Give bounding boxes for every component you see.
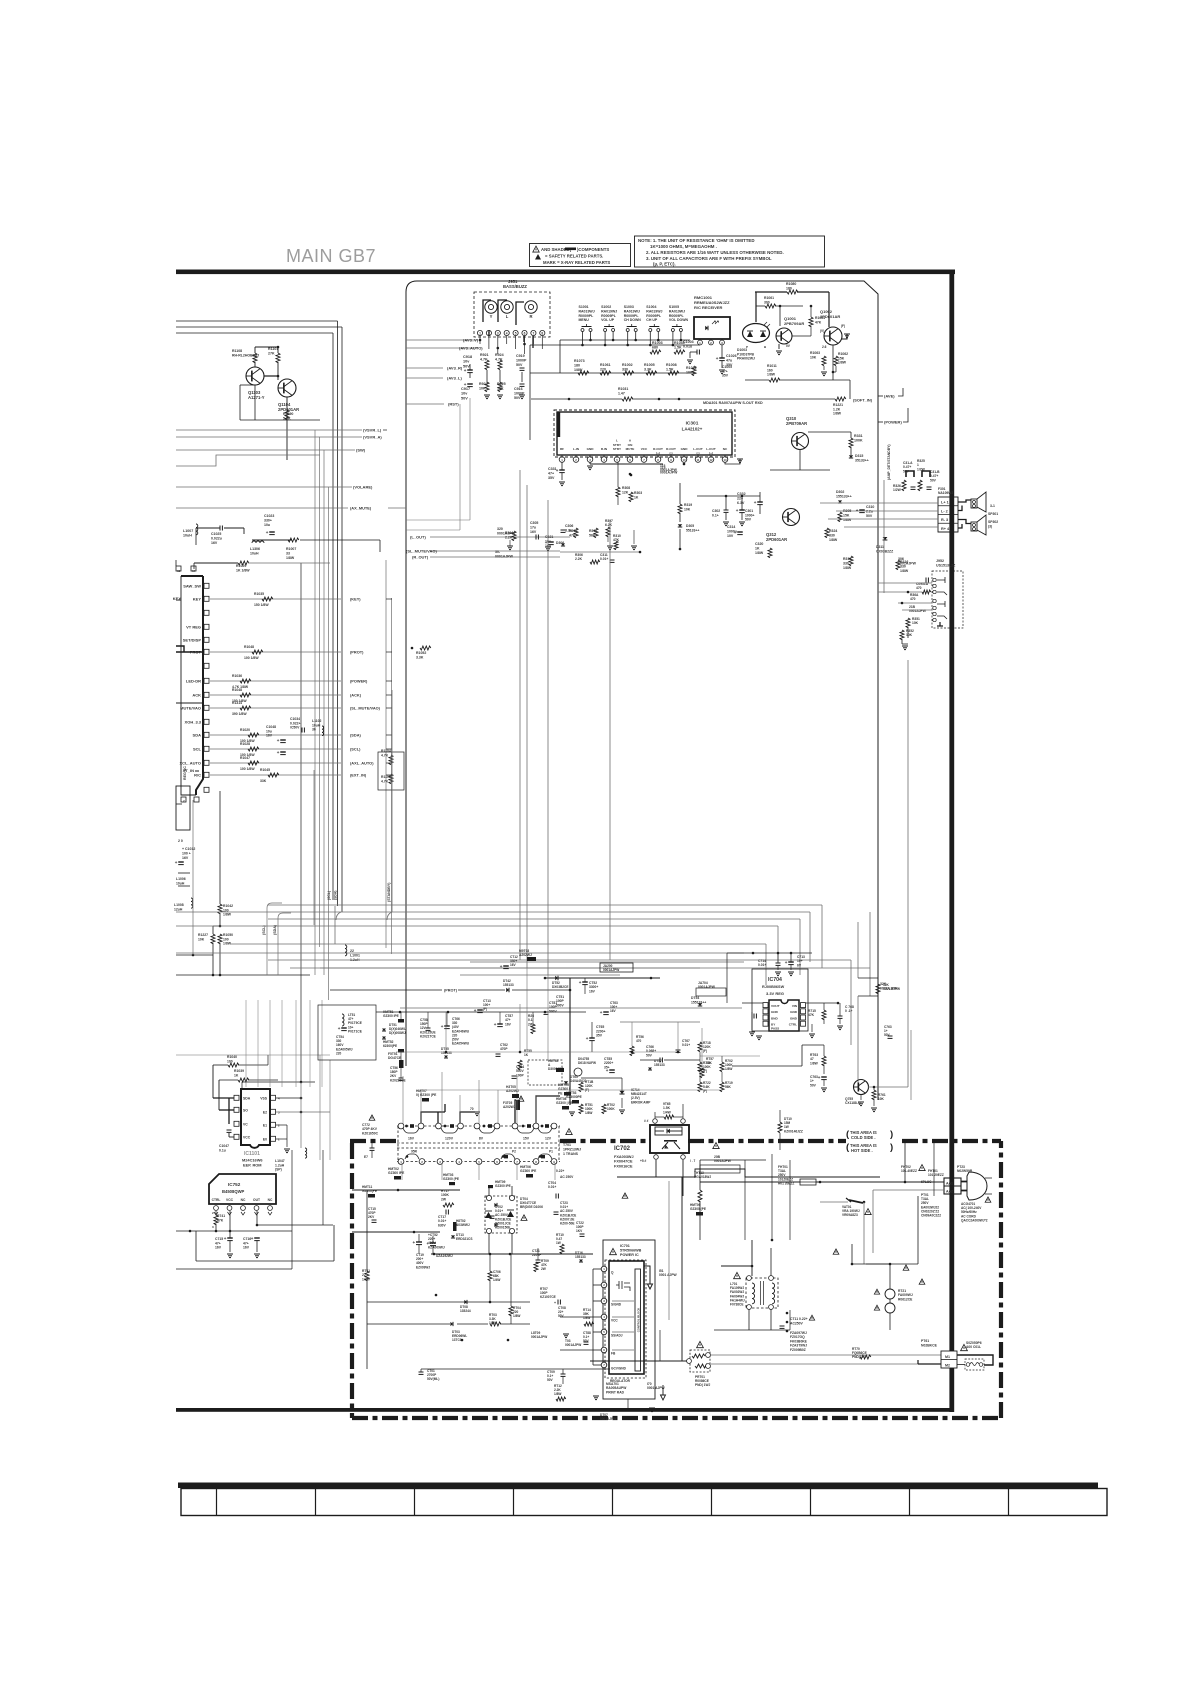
svg-text:+: + — [579, 980, 582, 985]
resistor RT21 fusible — [885, 1289, 895, 1299]
resistor R1048 on (ACK) — [240, 693, 251, 697]
svg-text:RA019WJ: RA019WJ — [579, 309, 595, 313]
svg-text:16V: 16V — [211, 541, 218, 545]
wire AX_MUTE — [176, 507, 348, 509]
svg-text:0 .1+: 0 .1+ — [845, 1009, 852, 1013]
svg-text:47+: 47+ — [548, 472, 554, 476]
svg-text:100 +: 100 + — [182, 851, 191, 855]
svg-text:NOTE: 1. THE UNIT OF RESISTANC: NOTE: 1. THE UNIT OF RESISTANCE ’OHM’ IS… — [638, 238, 755, 243]
IC702 internal LED — [655, 1127, 682, 1135]
svg-text:IC1101: IC1101 — [244, 1151, 260, 1157]
svg-text:0.1u: 0.1u — [219, 1148, 226, 1152]
wire hot mid rails — [537, 1248, 539, 1260]
capacitor C306 3.3u — [561, 529, 566, 531]
footer table divider 2 — [315, 1488, 317, 1516]
svg-text:P1: P1 — [549, 1150, 553, 1154]
op-amp IC301 LA42102 body — [557, 412, 732, 455]
svg-text:CONTROL BLOCK: CONTROL BLOCK — [637, 1308, 641, 1333]
svg-text:35V: 35V — [596, 1034, 603, 1038]
svg-text:95R: 95R — [411, 1150, 418, 1154]
ground IC752 caps — [229, 1241, 231, 1252]
wire (ACK) — [210, 694, 341, 696]
connector J952 headphone jack dashed — [932, 571, 963, 628]
svg-text:B4508QWP: B4508QWP — [222, 1189, 245, 1194]
svg-text:16V: 16V — [610, 1009, 617, 1013]
svg-text:6.2K: 6.2K — [605, 523, 613, 527]
svg-text:C916: C916 — [514, 387, 523, 391]
svg-text:50V: 50V — [583, 1339, 590, 1343]
svg-text:EZ009WJ: EZ009WJ — [416, 1265, 430, 1269]
svg-text:FXA003WJ: FXA003WJ — [614, 1155, 634, 1159]
wire strip vertical drops — [400, 1012, 402, 1019]
key bus wire lower — [530, 372, 694, 374]
svg-text:180: 180 — [786, 286, 792, 290]
svg-text:IC702: IC702 — [614, 1146, 631, 1152]
svg-text:R1048: R1048 — [232, 688, 242, 692]
svg-text:R1048: R1048 — [244, 645, 254, 649]
svg-text:(SL_MUTE/VAO): (SL_MUTE/VAO) — [350, 706, 381, 711]
svg-text:+: + — [277, 738, 280, 743]
svg-text:PRA002WJ: PRA002WJ — [737, 357, 755, 361]
svg-text:R921: R921 — [480, 353, 489, 357]
wire hot verticals misc — [771, 1154, 773, 1240]
frame right bar — [949, 270, 954, 1413]
svg-text:16V: 16V — [243, 1246, 250, 1250]
bus corner wires top-left — [176, 320, 338, 322]
svg-text:C314: C314 — [727, 525, 735, 529]
svg-text:EZA054WU: EZA054WU — [452, 1042, 470, 1046]
svg-text:(AX_MUTE): (AX_MUTE) — [350, 506, 372, 511]
wire strip rail 1012 — [376, 1011, 586, 1013]
svg-text:0001 AJPW: 0001 AJPW — [883, 987, 900, 991]
svg-text:+: + — [338, 1026, 341, 1031]
svg-text:50V: 50V — [516, 363, 523, 367]
svg-text:2PD601AR: 2PD601AR — [820, 314, 840, 319]
svg-text:GX03B2ZZ: GX03B2ZZ — [876, 549, 893, 553]
svg-text:SCL: SCL — [193, 747, 202, 752]
wire collector Q1103 — [254, 385, 256, 420]
svg-text:1KV: 1KV — [576, 1229, 583, 1233]
wire T701 lower drops — [401, 1163, 403, 1180]
svg-text:R1047: R1047 — [240, 756, 250, 760]
T701 secondary winding loops — [403, 1128, 419, 1133]
svg-text:R-IN: R-IN — [601, 447, 608, 451]
L701 coil B — [772, 1283, 775, 1304]
svg-text:+: + — [251, 1236, 254, 1241]
wire SW — [176, 449, 355, 451]
rail hot bottom — [421, 1368, 610, 1370]
svg-text:330: 330 — [622, 368, 628, 372]
svg-text:0001AJPW: 0001AJPW — [565, 1343, 581, 1347]
svg-text:6.3V: 6.3V — [737, 501, 745, 505]
svg-text:L1007: L1007 — [183, 529, 193, 533]
transistor Q1104 2PD601AR — [278, 379, 296, 397]
IC704 pin wires — [742, 1002, 763, 1004]
svg-text:C1026: C1026 — [726, 354, 737, 358]
svg-text:+: + — [277, 750, 280, 755]
svg-text:OUT: OUT — [253, 1198, 260, 1202]
svg-text:BND: BND — [771, 1016, 778, 1020]
warning triangle hot1 — [713, 1143, 719, 1149]
svg-text:R/C: R/C — [194, 773, 201, 778]
svg-text:(V): (V) — [820, 329, 824, 333]
svg-text:(R_OUT): (R_OUT) — [412, 555, 429, 560]
svg-text:L+ 1: L+ 1 — [941, 501, 949, 505]
svg-text:/ . 7: / . 7 — [690, 1159, 696, 1163]
svg-text:4.7K: 4.7K — [381, 779, 389, 783]
resistor R1061 220 — [600, 371, 611, 375]
svg-text:(POWER): (POWER) — [884, 420, 902, 425]
IC701 pin internal rails — [612, 1300, 634, 1302]
wire strip verticals extra — [445, 1012, 447, 1052]
svg-text:(SW): (SW) — [356, 448, 366, 453]
svg-text:1/4W: 1/4W — [663, 1110, 672, 1114]
svg-text:1/8W: 1/8W — [585, 1111, 592, 1115]
microcontroller IC1102 body — [181, 576, 203, 795]
wire right hot verticals — [917, 1196, 919, 1264]
svg-text:(PROT): (PROT) — [444, 989, 458, 993]
svg-text:R1108: R1108 — [232, 349, 242, 353]
speaker SP301 — [971, 499, 977, 508]
svg-text:R315: R315 — [569, 529, 577, 533]
svg-text:R0009PL: R0009PL — [624, 314, 640, 318]
svg-text:FB: FB — [611, 1352, 616, 1356]
L701 pin circles — [747, 1276, 752, 1281]
svg-text:J952: J952 — [936, 559, 944, 563]
svg-text:(RST): (RST) — [448, 402, 459, 407]
svg-text:(VSVR_A): (VSVR_A) — [363, 435, 382, 440]
dashed box DT65 HMT53 — [528, 1060, 562, 1085]
svg-text:C1003: C1003 — [683, 340, 694, 344]
svg-text:150 1/8W: 150 1/8W — [254, 603, 269, 607]
svg-text:VR09A8Z3: VR09A8Z3 — [842, 1213, 858, 1217]
svg-text:GZ300 | PE: GZ300 | PE — [556, 1101, 573, 1105]
IC701 dashed inner — [605, 1260, 646, 1378]
svg-text:1/8W: 1/8W — [223, 913, 232, 917]
svg-text:AC 250V: AC 250V — [560, 1175, 574, 1179]
svg-text:10K: 10K — [810, 355, 817, 359]
svg-text:30-: 30- — [495, 550, 501, 554]
svg-text:3.3K: 3.3K — [644, 368, 652, 372]
svg-text:GND: GND — [771, 1010, 779, 1014]
svg-text:12V: 12V — [545, 1137, 552, 1141]
capacitor CT52 3300u — [582, 981, 588, 983]
T701 secondary winding dots — [405, 1125, 408, 1128]
wire error amp rails — [581, 1077, 622, 1079]
svg-text:R331: R331 — [854, 434, 863, 438]
wire AV3_L — [406, 377, 443, 379]
ground IC701 bottom — [627, 1399, 629, 1408]
resistor R921 4.7K — [485, 360, 489, 370]
svg-text:47K: 47K — [815, 320, 822, 324]
J952 jack levers — [937, 577, 947, 619]
resistor R351 10K — [906, 618, 910, 628]
svg-text:RA019WJ: RA019WJ — [669, 309, 685, 313]
svg-text:10K: 10K — [878, 1097, 885, 1101]
warning triangle hot2 — [518, 1096, 524, 1101]
svg-text:(-): (-) — [696, 451, 699, 455]
svg-text:(PROT): (PROT) — [350, 650, 364, 655]
svg-text:KZ1007CE: KZ1007CE — [540, 1295, 556, 1299]
transformer T701 outline dashed — [397, 1126, 560, 1162]
wire L_OUT — [430, 536, 570, 538]
svg-text:1K=1000 OHMS, M=MEGAOHM .: 1K=1000 OHMS, M=MEGAOHM . — [650, 244, 717, 249]
svg-text:KZ00150E: KZ00150E — [495, 1226, 510, 1230]
svg-text:1/8W: 1/8W — [900, 569, 909, 573]
wire (AXL_AUTO) — [210, 762, 341, 764]
frame bottom bar — [176, 1408, 954, 1412]
resistor R1020 on (SDA) — [248, 733, 259, 737]
wire JA200 link — [600, 963, 633, 972]
svg-text:RF: RF — [560, 447, 564, 451]
capacitor C1025 0.022u — [219, 526, 221, 531]
svg-text:S1003: S1003 — [624, 305, 634, 309]
svg-text:2. ALL RESISTORS ARE 1/16 WATT: 2. ALL RESISTORS ARE 1/16 WATT UNLESS OT… — [646, 250, 784, 255]
footer table divider 4 — [513, 1488, 515, 1516]
resistor R1073 180 — [578, 371, 589, 375]
wire (SCL) — [210, 748, 341, 750]
IC IC701 STR5066B outer box — [603, 1240, 655, 1399]
wires EEPROM pullups — [213, 1064, 228, 1066]
svg-text:(L_OUT): (L_OUT) — [410, 535, 426, 540]
resistor R319 10K — [678, 504, 682, 514]
wire standby long vertical — [391, 690, 393, 912]
svg-text:0001AJPW: 0001AJPW — [660, 470, 678, 474]
resistor RT19 56K — [720, 1082, 724, 1092]
svg-text:1/8W: 1/8W — [838, 361, 847, 365]
svg-text:0) GZ300 (PE: 0) GZ300 (PE — [416, 1093, 437, 1097]
svg-text:1K: 1K — [524, 1053, 529, 1057]
wire AV3_AUTO — [406, 347, 478, 349]
svg-text:CTRL: CTRL — [212, 1198, 221, 1202]
svg-text:180: 180 — [574, 364, 580, 368]
J951 pins 1-8 — [477, 330, 482, 335]
resistor RT70 — [860, 1355, 871, 1359]
footer table top bar — [178, 1483, 1098, 1489]
svg-text:/C50V: /C50V — [290, 726, 300, 730]
capacitor C919 1000P — [520, 367, 525, 369]
svg-text:47K: 47K — [808, 1013, 815, 1017]
svg-text:(EXT_IN): (EXT_IN) — [350, 773, 367, 778]
svg-text:0.01+: 0.01+ — [548, 1185, 556, 1189]
svg-text:+: + — [500, 964, 503, 969]
svg-text:10K: 10K — [479, 387, 486, 391]
svg-text:LA42102+: LA42102+ — [682, 427, 703, 432]
svg-text:10K: 10K — [497, 387, 504, 391]
wire (SDA) — [210, 734, 341, 736]
micro pin LED-DR — [204, 678, 209, 683]
resistor RT04v 220 — [509, 1306, 513, 1316]
svg-text:1/8W: 1/8W — [843, 518, 852, 522]
T701 primary winding P2 — [501, 1154, 515, 1159]
resistor R923 10K — [485, 382, 489, 392]
svg-text:+: + — [474, 1008, 477, 1013]
svg-text:(STANDBY): (STANDBY) — [387, 882, 391, 902]
svg-text:KEY: KEY — [173, 596, 182, 601]
svg-text:P01T1CE: P01T1CE — [348, 1029, 362, 1033]
svg-text:(AV3_V): (AV3_V) — [463, 338, 479, 343]
resistor R331 100K — [849, 438, 853, 448]
svg-text:1W: 1W — [556, 1241, 561, 1245]
svg-text:R324: R324 — [829, 529, 837, 533]
svg-text:CH UP: CH UP — [646, 318, 658, 322]
svg-text:3. UNIT OF ALL CAPACITORS ARE: 3. UNIT OF ALL CAPACITORS ARE F WITH PRE… — [646, 256, 772, 261]
svg-text:L1306: L1306 — [250, 547, 260, 551]
svg-text:+ C1012: + C1012 — [182, 847, 195, 851]
svg-text:SS/ADJ: SS/ADJ — [611, 1334, 623, 1338]
wires IC752 lower — [215, 1211, 217, 1215]
svg-text:(SCL): (SCL) — [350, 747, 361, 752]
svg-text:22: 22 — [350, 949, 354, 953]
svg-text:+: + — [175, 860, 178, 865]
bus bundle verticals — [314, 430, 316, 975]
svg-text:10v: 10v — [461, 392, 468, 396]
resistor R1227 10K — [211, 934, 215, 944]
svg-text:100K: 100K — [607, 1107, 615, 1111]
svg-text:CN09A0C2Z2: CN09A0C2Z2 — [921, 1214, 941, 1218]
svg-text:R1020: R1020 — [240, 728, 250, 732]
svg-text:D302: D302 — [836, 490, 844, 494]
svg-text:1/2W: 1/2W — [893, 488, 902, 492]
svg-text:70: 70 — [470, 1107, 474, 1111]
wire degauss rail — [711, 1354, 941, 1356]
svg-text:VIN: VIN — [792, 1004, 798, 1008]
bus bundle lines into power strip — [470, 961, 744, 963]
micro pin nc15 — [204, 787, 209, 792]
svg-text:K2021TCE: K2021TCE — [420, 1034, 436, 1038]
T701 primary winding 95R — [405, 1154, 419, 1159]
svg-text:56K: 56K — [725, 1085, 732, 1089]
wire (PROT) — [210, 651, 341, 653]
svg-text:(SL_MUTE/VAO): (SL_MUTE/VAO) — [406, 549, 437, 554]
micro pin nc6 — [204, 663, 209, 668]
svg-text:BND: BND — [790, 1016, 797, 1020]
capacitor C917 — [467, 383, 473, 385]
svg-text:R1028: R1028 — [240, 742, 250, 746]
wire bridge to IC701 — [490, 1264, 604, 1266]
svg-text:10V: 10V — [727, 534, 734, 538]
svg-text:(AV3_AUTO): (AV3_AUTO) — [459, 346, 483, 351]
micro pin SCL — [204, 746, 209, 751]
svg-text:5TR5066WB: 5TR5066WB — [620, 1249, 642, 1253]
svg-text:SO: SO — [243, 1108, 248, 1112]
wire mid long verticals down — [526, 968, 528, 1052]
svg-text:0001AJPW: 0001AJPW — [898, 561, 917, 565]
resistor RT51b 100K — [579, 1104, 583, 1114]
svg-text:AA1: AA1 — [946, 1182, 953, 1186]
capacitor C305 17u — [535, 535, 537, 540]
junction pin6 dot — [629, 473, 632, 476]
svg-text:FX0016CE: FX0016CE — [614, 1164, 633, 1168]
svg-text:E1: E1 — [263, 1123, 267, 1127]
diode DT08 135244 — [464, 1300, 467, 1304]
svg-text:GND: GND — [681, 447, 689, 451]
svg-text:NC: NC — [268, 1198, 273, 1202]
svg-text:C918: C918 — [463, 355, 472, 359]
thermistor posistor FR070 — [697, 1341, 704, 1347]
svg-text:CH DOWN: CH DOWN — [624, 318, 642, 322]
svg-text:1/8W: 1/8W — [833, 412, 842, 416]
footer table divider 8 — [909, 1488, 911, 1516]
ground hot area — [593, 1395, 599, 1397]
vertical C706 68K — [488, 1271, 492, 1281]
svg-text:1K 1/8W: 1K 1/8W — [236, 568, 250, 572]
svg-text:P: P — [746, 345, 748, 349]
svg-text:L- 2: L- 2 — [941, 509, 948, 513]
svg-text:S1002: S1002 — [601, 305, 611, 309]
svg-text:2W: 2W — [541, 1267, 546, 1271]
svg-text:GZ300 IPE: GZ300 IPE — [495, 1184, 511, 1188]
wires hot left area — [431, 1253, 593, 1255]
resistor R1045 on (EXT_IN) — [268, 773, 279, 777]
resistor 32K bump — [857, 922, 859, 978]
svg-text:(SP): (SP) — [275, 1168, 282, 1172]
svg-text:135244: 135244 — [460, 1309, 471, 1313]
svg-text:6: 6 — [524, 332, 526, 336]
IC704 left pin caps — [753, 1014, 755, 1019]
J951 internal wiring — [483, 300, 491, 322]
svg-text:DG47CE: DG47CE — [388, 1056, 402, 1060]
svg-text:R1052: R1052 — [416, 651, 426, 655]
svg-text:2KV: 2KV — [368, 1215, 375, 1219]
hot area border bottom — [352, 1416, 1001, 1420]
wire mid strip rails — [400, 1007, 742, 1009]
svg-text:1/8W: 1/8W — [489, 1321, 496, 1325]
wire inner box verticals mid — [519, 470, 521, 960]
svg-text:35V: 35V — [722, 374, 729, 378]
resistor R316 330 — [896, 560, 900, 570]
footer table divider 3 — [414, 1488, 416, 1516]
svg-text:10: 10 — [682, 458, 686, 462]
svg-text:SET/DISP: SET/DISP — [183, 638, 202, 643]
svg-text:1/8W: 1/8W — [810, 1061, 819, 1065]
svg-text:NA109WJ: NA109WJ — [938, 491, 953, 495]
capacitor C916 1000P — [520, 383, 525, 385]
capacitor C1026 47u — [719, 357, 725, 359]
resistor RT03h 3.3K — [490, 1322, 501, 1326]
svg-text:R- 3: R- 3 — [941, 518, 948, 522]
svg-text:R318: R318 — [843, 557, 851, 561]
svg-text:ERD321CS: ERD321CS — [456, 1237, 472, 1241]
svg-text:C321: C321 — [545, 535, 553, 539]
svg-text:390 1/8W: 390 1/8W — [232, 712, 247, 716]
svg-text:S/GND: S/GND — [611, 1303, 622, 1307]
svg-text:50V: 50V — [810, 1083, 817, 1087]
svg-text:D306: D306 — [556, 541, 564, 545]
svg-text:16V: 16V — [530, 530, 537, 534]
svg-text:220: 220 — [600, 368, 606, 372]
svg-text:R925: R925 — [497, 382, 506, 386]
svg-text:2.6: 2.6 — [822, 345, 827, 349]
svg-text:RA019WJ: RA019WJ — [624, 309, 640, 313]
resistor R315 47K — [574, 528, 578, 538]
junction dots strip — [445, 1051, 448, 1054]
svg-text:E0: E0 — [263, 1137, 267, 1141]
key matrix bus wires — [530, 344, 700, 346]
IC701 drain wire arrow — [644, 1266, 653, 1289]
svg-text:470P: 470P — [500, 1047, 508, 1051]
wires IC701 left — [592, 1269, 594, 1365]
svg-text:IC704: IC704 — [768, 977, 782, 983]
svg-text:GZ300 IPE: GZ300 IPE — [520, 1169, 537, 1173]
micro pin nc2 — [204, 610, 209, 615]
svg-text:1: 1 — [479, 332, 481, 336]
svg-text:17u: 17u — [530, 525, 536, 529]
svg-text:R1031: R1031 — [618, 387, 628, 391]
wires IC702 to primary side — [690, 1181, 816, 1183]
svg-text:10K: 10K — [906, 633, 913, 637]
svg-text:L: L — [506, 314, 509, 319]
